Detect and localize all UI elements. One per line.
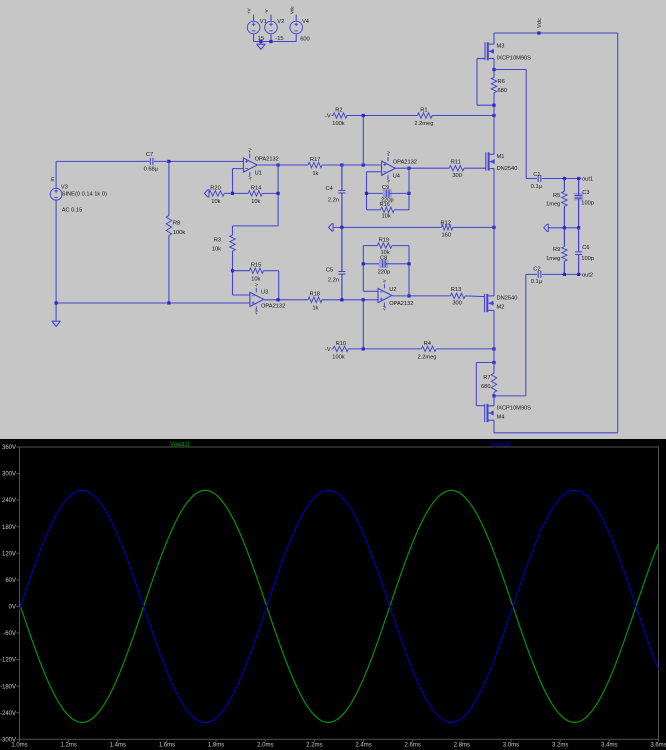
- wire supply ground bus: [254, 41, 297, 43]
- svg-text:3.6ms: 3.6ms: [650, 743, 666, 749]
- svg-text:10k: 10k: [251, 277, 260, 283]
- op-amp U3: [250, 283, 285, 315]
- svg-text:360V: 360V: [2, 445, 16, 451]
- svg-text:C8: C8: [380, 255, 387, 261]
- svg-text:-V: -V: [325, 347, 331, 353]
- trace V(out1) green: [20, 490, 659, 722]
- svg-text:C3: C3: [582, 190, 589, 196]
- wire C9 row right: [389, 192, 409, 194]
- node junction C4 top: [340, 163, 343, 166]
- capacitor C7: [144, 152, 159, 172]
- svg-text:R17: R17: [310, 157, 320, 163]
- svg-text:-V: -V: [386, 179, 391, 183]
- svg-text:R8: R8: [173, 221, 180, 227]
- svg-text:R9: R9: [553, 247, 560, 253]
- wire out-mid row: [548, 227, 578, 229]
- node junction R7 bottom: [492, 394, 495, 397]
- wire R7 leads: [493, 363, 495, 396]
- wire U2 minus input: [363, 290, 378, 292]
- wire bottom rail: [494, 432, 618, 434]
- svg-text:300: 300: [452, 173, 462, 179]
- node junction bus-V2: [269, 40, 272, 43]
- svg-text:180V: 180V: [2, 525, 16, 531]
- ground symbol V3: [52, 321, 61, 326]
- svg-text:Vdc: Vdc: [537, 18, 543, 28]
- wire R15 right: [264, 271, 279, 300]
- svg-text:M3: M3: [497, 44, 505, 50]
- svg-text:C6: C6: [582, 245, 589, 251]
- wire spine R12-M2: [493, 227, 495, 296]
- node junction mid C6: [577, 226, 580, 229]
- node junction R7 top: [492, 361, 495, 364]
- svg-text:10k: 10k: [212, 246, 221, 252]
- svg-text:1meg: 1meg: [546, 256, 560, 262]
- voltage source V3: [50, 184, 107, 213]
- wire C1 left lead: [526, 178, 537, 180]
- wire spine M1-R12: [493, 169, 495, 228]
- node junction R6 bottom: [492, 104, 495, 107]
- wire ground rail: [56, 302, 250, 304]
- capacitor C9: [381, 185, 394, 203]
- transistor M1 DN2540: [486, 152, 518, 172]
- svg-text:OPA2132: OPA2132: [261, 304, 285, 310]
- svg-text:IXCP10M90S: IXCP10M90S: [497, 55, 532, 61]
- svg-text:+V: +V: [254, 309, 259, 314]
- wire top row to U4: [342, 164, 382, 166]
- svg-text:C5: C5: [326, 267, 333, 273]
- svg-text:C7: C7: [146, 152, 153, 158]
- net label -V left of R2: [325, 114, 331, 120]
- svg-text:1.2ms: 1.2ms: [61, 743, 77, 749]
- svg-text:U2: U2: [389, 287, 396, 293]
- wire R8 top lead: [168, 161, 170, 215]
- svg-text:0.68µ: 0.68µ: [144, 166, 159, 172]
- voltage source V1: [247, 8, 267, 42]
- node junction U1 out: [277, 163, 280, 166]
- wire spine to M1: [493, 116, 495, 155]
- svg-text:220p: 220p: [378, 269, 391, 275]
- svg-text:2.2n: 2.2n: [328, 197, 339, 203]
- node junction U2 drop: [362, 298, 365, 301]
- svg-text:2.6ms: 2.6ms: [405, 743, 421, 749]
- svg-text:V(out1): V(out1): [170, 442, 190, 448]
- svg-text:R19: R19: [379, 238, 389, 244]
- wire top row left: [56, 160, 149, 162]
- node junction R10 drop: [362, 347, 365, 350]
- svg-text:C9: C9: [382, 185, 389, 191]
- capacitor C3 highlight: [574, 193, 583, 201]
- resistor R10: [332, 341, 349, 361]
- svg-text:1.4ms: 1.4ms: [110, 743, 126, 749]
- port arrow R20: [204, 190, 209, 197]
- wire R19 right vertical: [408, 246, 410, 296]
- node junction R12 spine: [492, 226, 495, 229]
- svg-text:2.4ms: 2.4ms: [355, 743, 371, 749]
- transistor M2 DN2540: [485, 294, 518, 312]
- schematic panel: [0, 0, 666, 439]
- svg-text:-240V: -240V: [0, 711, 16, 717]
- wire R3 bottom lead: [232, 251, 234, 295]
- svg-text:M1: M1: [497, 154, 505, 160]
- svg-text:0V: 0V: [9, 605, 16, 611]
- svg-text:680: 680: [498, 88, 508, 94]
- node junction C9 right: [407, 192, 410, 195]
- node junction V-drop top: [362, 163, 365, 166]
- svg-text:3.2ms: 3.2ms: [552, 743, 568, 749]
- svg-text:R7: R7: [483, 375, 490, 381]
- node junction R8-rail: [167, 301, 170, 304]
- node junction U3 out: [277, 298, 280, 301]
- svg-text:M4: M4: [497, 414, 505, 420]
- svg-text:R11: R11: [451, 159, 461, 165]
- wire U1 minus input: [233, 169, 244, 194]
- node junction out1: [577, 177, 580, 180]
- svg-text:1k: 1k: [312, 306, 318, 312]
- svg-text:V(out2): V(out2): [490, 442, 510, 448]
- svg-text:R18: R18: [310, 292, 320, 298]
- voltage source V2: [264, 10, 284, 43]
- resistor R16: [367, 202, 410, 220]
- svg-text:C1: C1: [533, 172, 540, 178]
- node junction R20-R14: [231, 192, 234, 195]
- wire C8 row left: [363, 263, 381, 265]
- wire R2 drop: [362, 116, 364, 166]
- wire M3 gate loop: [477, 59, 494, 106]
- wire R19 left vertical: [362, 246, 364, 292]
- wire R2 to R1: [347, 115, 417, 117]
- svg-text:in: in: [50, 177, 56, 181]
- svg-text:R15: R15: [251, 263, 261, 269]
- node junction Vdc: [537, 31, 540, 34]
- svg-text:+V: +V: [248, 148, 253, 153]
- svg-text:U1: U1: [255, 170, 262, 176]
- wire U3 output: [264, 299, 308, 301]
- port arrow mid-right: [544, 224, 549, 231]
- capacitor C2: [531, 266, 543, 285]
- node junction C9 left: [365, 192, 368, 195]
- svg-text:R16: R16: [380, 202, 390, 208]
- svg-text:R12: R12: [441, 220, 451, 226]
- svg-text:300: 300: [452, 301, 462, 307]
- wire U3 minus input: [233, 294, 250, 296]
- node junction R9 bottom: [563, 273, 566, 276]
- svg-text:10k: 10k: [382, 214, 391, 220]
- svg-text:R10: R10: [336, 341, 346, 347]
- wire C2 to out2: [542, 273, 581, 275]
- svg-text:100p: 100p: [581, 201, 594, 207]
- waveform panel: [0, 439, 666, 750]
- svg-text:2.2meg: 2.2meg: [414, 121, 433, 127]
- svg-text:300V: 300V: [2, 472, 16, 478]
- svg-text:1meg: 1meg: [546, 202, 560, 208]
- wire U1 out row: [257, 164, 308, 166]
- wire top rail: [494, 32, 618, 34]
- node junction C8 right: [407, 262, 410, 265]
- svg-text:1.8ms: 1.8ms: [208, 743, 224, 749]
- wire U2 drop: [362, 300, 364, 349]
- node junction out2: [577, 273, 580, 276]
- node junction C4-C5 mid: [340, 226, 343, 229]
- node junction R4 spine: [492, 347, 495, 350]
- wire C2 drop: [525, 274, 527, 396]
- wire R7-C2 link: [494, 395, 526, 397]
- wire C9 row left: [367, 192, 386, 194]
- wire R14 right: [262, 192, 278, 194]
- ground symbol supplies: [257, 42, 266, 50]
- svg-text:IXCP10M90S: IXCP10M90S: [497, 405, 532, 411]
- port arrow mid-left: [329, 224, 334, 231]
- node junction C5 bottom: [340, 298, 343, 301]
- svg-text:10k: 10k: [251, 199, 260, 205]
- svg-text:1.6ms: 1.6ms: [159, 743, 175, 749]
- node label in: [50, 177, 56, 181]
- svg-text:1k: 1k: [312, 171, 318, 177]
- op-amp U1: [243, 148, 278, 181]
- svg-text:R4: R4: [424, 341, 431, 347]
- node junction R5 top: [563, 177, 566, 180]
- svg-text:100k: 100k: [332, 121, 344, 127]
- voltage source V4: [289, 5, 309, 42]
- resistor R9: [546, 228, 567, 275]
- svg-text:-180V: -180V: [0, 684, 16, 690]
- node junction R14 out: [277, 192, 280, 195]
- svg-text:R13: R13: [451, 287, 461, 293]
- node junction U2 out: [407, 294, 410, 297]
- svg-text:R3: R3: [214, 238, 221, 244]
- resistor R2: [332, 107, 347, 127]
- capacitor C4: [326, 165, 346, 227]
- svg-text:160: 160: [442, 233, 452, 239]
- resistor R7: [481, 373, 497, 392]
- svg-text:100k: 100k: [173, 230, 185, 236]
- svg-text:+V: +V: [247, 8, 252, 14]
- svg-text:C2: C2: [533, 266, 540, 272]
- svg-text:0.1µ: 0.1µ: [531, 279, 543, 285]
- resistor R4: [418, 341, 437, 361]
- svg-text:-V: -V: [248, 176, 253, 180]
- capacitor C6: [575, 228, 594, 275]
- wire mid row: [333, 226, 441, 228]
- capacitor C9 highlight: [383, 189, 392, 198]
- svg-text:R6: R6: [498, 79, 505, 85]
- svg-text:Vdc: Vdc: [289, 5, 294, 14]
- svg-text:OPA2132: OPA2132: [389, 301, 413, 307]
- wire R13 to M2 gate: [465, 295, 484, 298]
- transistor M4 IXCP10M90S: [485, 404, 531, 422]
- wire V3 bottom: [55, 200, 57, 321]
- wire C2 left lead: [526, 273, 537, 275]
- wire R4 right: [436, 348, 494, 350]
- resistor R15: [233, 263, 264, 283]
- svg-text:R5: R5: [553, 193, 560, 199]
- capacitor C8 highlight: [379, 260, 388, 269]
- svg-text:AC 0.15: AC 0.15: [62, 208, 83, 214]
- svg-text:2.2ms: 2.2ms: [306, 743, 322, 749]
- svg-text:M2: M2: [497, 304, 505, 310]
- svg-text:2.2meg: 2.2meg: [418, 355, 437, 361]
- node junction M3 source: [492, 68, 495, 71]
- node junction U4 out: [407, 167, 410, 170]
- svg-text:out2: out2: [582, 273, 593, 279]
- svg-text:+V: +V: [382, 306, 387, 311]
- svg-text:60V: 60V: [5, 578, 16, 584]
- resistor R13: [451, 287, 466, 306]
- wire R18 to U2: [322, 299, 378, 301]
- wire spine M3-R6: [493, 59, 495, 78]
- svg-text:-V: -V: [254, 283, 259, 287]
- svg-text:100k: 100k: [332, 355, 344, 361]
- svg-text:100p: 100p: [581, 256, 594, 262]
- svg-text:120V: 120V: [2, 551, 16, 557]
- node junction R3-R15: [231, 269, 234, 272]
- wire M4 gate loop: [476, 363, 494, 406]
- wire R16 right vertical: [408, 168, 410, 210]
- svg-text:2.8ms: 2.8ms: [454, 743, 470, 749]
- wire R11 to M1 gate: [464, 167, 486, 169]
- capacitor C1: [531, 172, 543, 190]
- svg-text:+V: +V: [386, 151, 391, 156]
- svg-text:2.2n: 2.2n: [328, 278, 339, 284]
- wire spine R7-M4: [493, 396, 495, 406]
- op-amp U2: [378, 279, 413, 311]
- svg-text:3.0ms: 3.0ms: [503, 743, 519, 749]
- svg-text:10k: 10k: [211, 199, 220, 205]
- op-amp U4: [382, 151, 417, 184]
- svg-text:240V: 240V: [2, 498, 16, 504]
- node label out1: [582, 177, 593, 183]
- node junction C8 left: [362, 262, 365, 265]
- svg-text:-V: -V: [382, 279, 387, 283]
- wire C7 to U1: [154, 160, 244, 162]
- svg-text:-120V: -120V: [0, 658, 16, 664]
- node junction mid R9: [563, 226, 566, 229]
- resistor R8: [166, 216, 185, 236]
- wire R8 bottom lead: [168, 236, 170, 304]
- node label out2: [582, 273, 593, 279]
- svg-text:R20: R20: [210, 185, 220, 191]
- wire R12 right: [453, 226, 494, 228]
- resistor R3: [212, 235, 235, 252]
- svg-text:C4: C4: [326, 186, 333, 192]
- wire R20 to R14: [224, 192, 248, 194]
- svg-text:R1: R1: [420, 107, 427, 113]
- svg-text:R14: R14: [251, 185, 261, 191]
- resistor R12: [441, 220, 453, 238]
- node junction V3-rail: [55, 301, 58, 304]
- capacitor C8: [378, 255, 391, 275]
- svg-text:out1: out1: [582, 177, 593, 183]
- resistor R19: [363, 238, 409, 256]
- wire R3 top lead: [232, 226, 234, 235]
- svg-text:3.4ms: 3.4ms: [601, 743, 617, 749]
- svg-text:600: 600: [300, 37, 310, 43]
- svg-text:V4: V4: [302, 19, 309, 25]
- node label Vdc top: [537, 18, 543, 28]
- capacitor C5: [326, 227, 345, 299]
- wire spine M4 bottom: [493, 420, 495, 433]
- resistor R14: [248, 185, 262, 205]
- svg-text:OPA2132: OPA2132: [393, 160, 417, 166]
- svg-text:V2: V2: [277, 19, 284, 25]
- wire U4 minus input: [367, 172, 382, 210]
- wire R1 right: [432, 115, 494, 117]
- wire U4 out row: [395, 167, 449, 169]
- svg-text:DN2540: DN2540: [497, 295, 518, 301]
- resistor R6: [491, 77, 507, 94]
- resistor R20: [209, 185, 224, 205]
- wire R10 to R4: [348, 348, 421, 350]
- svg-text:R2: R2: [335, 107, 342, 113]
- resistor R5: [546, 179, 567, 228]
- wire spine M3 drain: [493, 33, 495, 44]
- wire C8 row right: [386, 263, 409, 265]
- svg-text:-V: -V: [325, 114, 331, 120]
- svg-text:U4: U4: [393, 174, 400, 180]
- svg-text:-V: -V: [264, 10, 269, 15]
- resistor R1: [414, 107, 433, 127]
- svg-text:OPA2132: OPA2132: [255, 156, 279, 162]
- trace V(out2) blue: [20, 490, 659, 722]
- svg-text:V3: V3: [61, 184, 68, 190]
- svg-text:0.1µ: 0.1µ: [531, 184, 543, 190]
- svg-text:2.0ms: 2.0ms: [257, 743, 273, 749]
- wire spine M2-R4row: [493, 310, 495, 362]
- svg-text:1.0ms: 1.0ms: [11, 743, 27, 749]
- svg-text:DN2540: DN2540: [497, 166, 518, 172]
- wire U1 output vertical: [277, 165, 279, 226]
- wire U2 out row: [392, 295, 450, 297]
- node junction R1 spine: [492, 114, 495, 117]
- svg-text:SINE(0 0.14 1k 0): SINE(0 0.14 1k 0): [62, 191, 107, 197]
- wire right side rail: [617, 33, 619, 433]
- svg-text:680: 680: [481, 384, 491, 390]
- svg-text:U3: U3: [261, 290, 268, 296]
- wire node to R3: [233, 225, 279, 227]
- wire R17 to C4: [322, 164, 342, 166]
- resistor R18: [308, 292, 322, 312]
- wire spine R6-node: [493, 93, 495, 116]
- wire M3source-C1: [494, 70, 526, 179]
- node junction R2 drop: [362, 114, 365, 117]
- node junction bus-gnd: [259, 40, 262, 43]
- resistor R17: [308, 157, 322, 177]
- svg-text:-60V: -60V: [3, 631, 16, 637]
- resistor R11: [449, 159, 464, 179]
- wire V3 top: [55, 161, 57, 188]
- capacitor C3: [575, 179, 594, 228]
- net label -V left of R10: [325, 347, 331, 353]
- node junction C7-R8: [167, 160, 170, 163]
- transistor M3 IXCP10M90S: [477, 42, 531, 61]
- wire C1 to out1: [542, 178, 581, 180]
